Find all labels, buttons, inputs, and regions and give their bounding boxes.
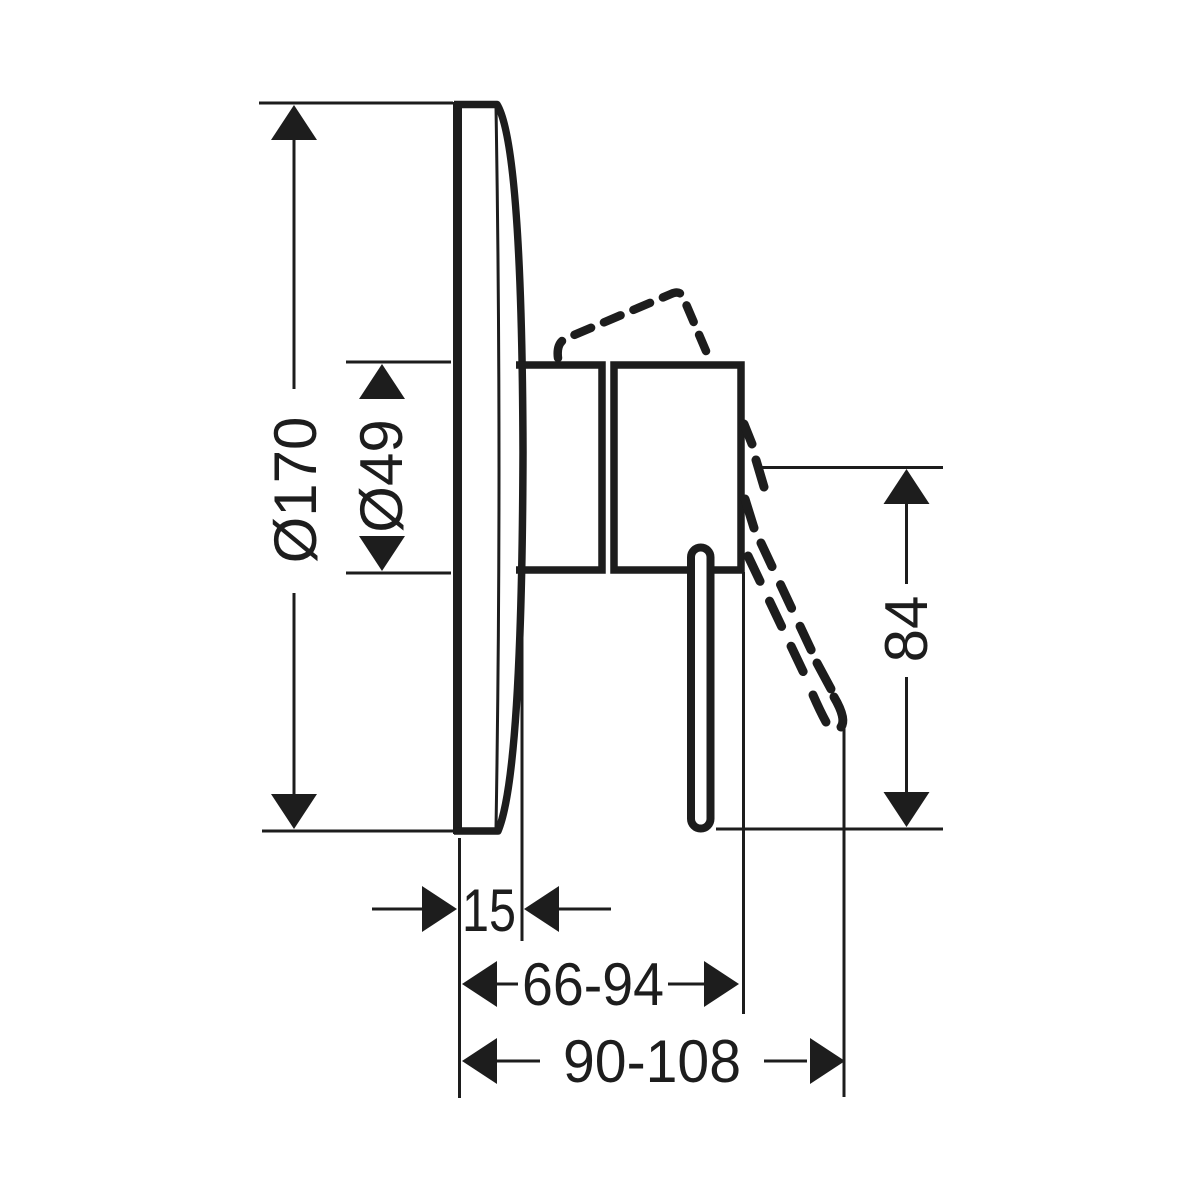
valve body box 2 (outer housing) [614,365,741,570]
dimension 15 : right extension line [521,470,524,941]
dimension 15 : left arrowhead [422,886,457,932]
dimension Ø170 : top extension line [259,102,453,105]
dimension Ø170 : bottom arrowhead [271,794,317,829]
dimension 90-108 : right tail line [764,1060,807,1063]
svg-text:Ø49: Ø49 [348,419,415,532]
svg-text:Ø170: Ø170 [262,417,329,564]
dimension 15 : right tail line [559,908,611,911]
lever handle (solid, vertical position) [691,548,711,829]
dimension 90-108 : right extension line (from phantom lever tip) [843,728,846,1097]
svg-text:84: 84 [873,596,940,663]
escutcheon plate left edge (wall face) [453,102,462,834]
dimension Ø170 : top arrowhead [271,105,317,140]
dimension 84 : bottom arrowhead [884,792,930,827]
dimension 66-94 : left arrowhead [462,961,497,1007]
lowered phantom lever end cap bent dash [834,697,843,727]
dimension Ø49 : bottom extension line [346,572,451,575]
dimension Ø49 : top arrowhead [359,364,405,399]
lowered phantom lever right edge (dashed) [761,543,814,656]
valve body box 1 (inner housing) [516,365,602,570]
dimension 90-108 : right arrowhead [810,1038,845,1084]
dimension Ø170 : dimension line [293,139,296,796]
dimension 90-108 : left arrowhead [462,1038,497,1084]
dimension 66-94 : left tail line [497,983,518,986]
dimension Ø49 : bottom arrowhead [359,536,405,571]
dimension 66-94 : right arrowhead [704,961,739,1007]
dimension 84 : top arrowhead [884,469,930,504]
lowered phantom lever left edge final bent dash [813,695,826,722]
escutcheon plate inner rim line [496,107,499,829]
dimension 90-108 : left tail line [497,1060,540,1063]
dimension 15 : right arrowhead [524,886,559,932]
dimension Ø49 : top extension line [346,361,451,364]
lever handle phantom outline (raised position, dashed) [558,293,706,358]
svg-text:66-94: 66-94 [522,951,664,1018]
dimension 66-94 : right extension line [742,572,745,1014]
dimension 15 : left extension line [458,838,461,1098]
dimension 84 : dimension line [905,503,908,793]
svg-text:15: 15 [462,877,516,944]
lowered phantom lever left edge (dashed) [748,556,811,688]
lowered phantom lever right edge middle dash [817,663,831,689]
dimension 84 : bottom extension line [716,828,943,831]
dimension 84 : top extension line [758,466,943,469]
lever handle phantom outline (lowered position, dashed) : upper starter dashes [744,424,764,528]
escutcheon plate outline (top edge, convex face curve, bottom edge) [454,105,523,832]
dimension Ø170 : bottom extension line [262,830,457,833]
dimension 15 : left tail line [372,908,422,911]
dimension 66-94 : right tail line [668,983,704,986]
svg-text:90-108: 90-108 [563,1028,741,1095]
